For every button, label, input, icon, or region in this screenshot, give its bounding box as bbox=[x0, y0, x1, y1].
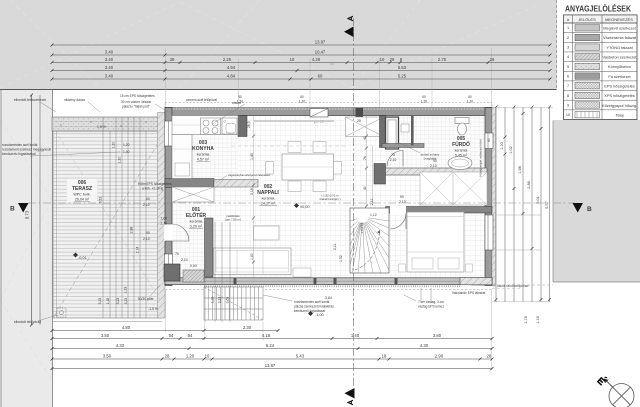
svg-text:3,29 m²: 3,29 m² bbox=[190, 225, 203, 229]
svg-text:3.80: 3.80 bbox=[433, 333, 442, 338]
kitchen bottom wall dark part bbox=[165, 179, 214, 188]
A marker top bbox=[344, 27, 354, 38]
svg-text:Vakolandó EPS lábazat: Vakolandó EPS lábazat bbox=[452, 291, 485, 295]
svg-text:XPS hőszigetelés: XPS hőszigetelés bbox=[604, 93, 635, 98]
svg-text:1.76: 1.76 bbox=[524, 316, 528, 323]
svg-text:1.98: 1.98 bbox=[518, 166, 522, 173]
svg-text:1,52: 1,52 bbox=[339, 255, 343, 262]
closet crossed box below top wall bbox=[346, 117, 384, 137]
left wall sidelight window bbox=[164, 254, 172, 268]
B marker left bbox=[18, 203, 29, 213]
svg-text:60: 60 bbox=[146, 197, 150, 201]
bottom wall right solid piece bbox=[460, 278, 492, 285]
svg-text:60: 60 bbox=[318, 74, 323, 79]
svg-text:×: × bbox=[90, 120, 92, 124]
insulation dashed outline above top wall bbox=[165, 103, 492, 108]
svg-text:Hőszükséglet nyílászáró bővít: Hőszükséglet nyílászáró bővít bbox=[479, 139, 483, 176]
svg-text:2,10: 2,10 bbox=[143, 203, 150, 207]
svg-text:×: × bbox=[60, 123, 62, 127]
svg-text:1.23: 1.23 bbox=[124, 287, 128, 294]
A marker bottom bbox=[345, 388, 355, 399]
corridor wardrobe crossed boxes bbox=[420, 172, 487, 205]
svg-text:Meglévő szerkezet: Meglévő szerkezet bbox=[603, 26, 636, 31]
svg-text:29: 29 bbox=[390, 57, 395, 62]
svg-text:1,20: 1,20 bbox=[123, 143, 130, 147]
right wall bedroom window bbox=[485, 215, 493, 250]
svg-text:1,80: 1,80 bbox=[250, 253, 254, 260]
svg-text:rozsdamentes acél korlát: rozsdamentes acél korlát bbox=[2, 143, 38, 147]
kitchen label bbox=[192, 140, 214, 162]
svg-text:90: 90 bbox=[238, 95, 242, 99]
svg-text:elbontott tetőszerkezet: elbontott tetőszerkezet bbox=[14, 98, 46, 102]
svg-text:(gm 7,00 m): (gm 7,00 m) bbox=[225, 218, 241, 222]
svg-text:NAPPALI: NAPPALI bbox=[257, 190, 279, 196]
svg-text:4.80: 4.80 bbox=[122, 325, 131, 330]
svg-text:8.73: 8.73 bbox=[25, 210, 30, 219]
svg-text:3.40: 3.40 bbox=[105, 74, 114, 79]
svg-text:-0,01: -0,01 bbox=[78, 256, 87, 260]
svg-text:40: 40 bbox=[363, 186, 367, 190]
svg-text:60: 60 bbox=[487, 138, 491, 142]
svg-text:KONYHA: KONYHA bbox=[192, 146, 214, 152]
coffee table bbox=[254, 226, 280, 240]
svg-text:2,10: 2,10 bbox=[399, 200, 406, 204]
svg-text:-1,00: -1,00 bbox=[315, 313, 324, 317]
svg-text:3.50: 3.50 bbox=[101, 333, 110, 338]
svg-text:13.87: 13.87 bbox=[315, 40, 326, 45]
top wall bbox=[165, 108, 492, 116]
svg-text:2.30: 2.30 bbox=[243, 325, 252, 330]
svg-text:2,11: 2,11 bbox=[333, 244, 337, 250]
demolished roof white dashed diagonals bbox=[0, 0, 540, 380]
svg-text:Vasbeton szerkezet: Vasbeton szerkezet bbox=[603, 55, 638, 60]
bath door pier bbox=[374, 164, 386, 185]
svg-text:a köb. +2,10-ig: a köb. +2,10-ig bbox=[142, 187, 163, 191]
svg-text:90: 90 bbox=[146, 231, 150, 235]
interior floor bbox=[165, 108, 492, 285]
svg-text:1,20: 1,20 bbox=[299, 100, 305, 104]
dim line 13.87 bbox=[52, 44, 550, 46]
washing machine bbox=[401, 124, 409, 132]
svg-text:18: 18 bbox=[382, 354, 387, 359]
svg-text:38: 38 bbox=[170, 57, 175, 62]
svg-text:±0,00: ±0,00 bbox=[300, 205, 309, 209]
svg-text:30 cm vázker. falazat: 30 cm vázker. falazat bbox=[121, 100, 151, 104]
site boundary lines bbox=[0, 89, 557, 91]
svg-text:3: 3 bbox=[567, 46, 569, 50]
svg-text:26,04 m²: 26,04 m² bbox=[75, 198, 90, 202]
bedroom door opening bbox=[390, 206, 406, 214]
svg-text:28: 28 bbox=[165, 354, 170, 359]
svg-text:70: 70 bbox=[175, 252, 179, 256]
svg-text:1,18: 1,18 bbox=[106, 298, 110, 305]
svg-text:1,18: 1,18 bbox=[211, 297, 215, 304]
svg-text:24,37 m²: 24,37 m² bbox=[261, 202, 276, 206]
svg-text:3.52: 3.52 bbox=[99, 197, 103, 204]
bath door leaf+arc bbox=[387, 151, 403, 167]
sink bbox=[222, 118, 237, 134]
bed bbox=[407, 212, 464, 272]
svg-text:5.24: 5.24 bbox=[266, 343, 275, 348]
svg-text:50/30 pillér: 50/30 pillér bbox=[138, 297, 155, 301]
row numbers bbox=[566, 26, 570, 117]
svg-text:75: 75 bbox=[391, 153, 395, 157]
terrace label bbox=[67, 179, 97, 203]
svg-text:cement acél tetőpúval: cement acél tetőpúval bbox=[186, 98, 217, 102]
svg-text:vakolt szinti tetőpúvad: vakolt szinti tetőpúvad bbox=[497, 284, 529, 288]
bath partition wall bbox=[411, 116, 414, 146]
svg-text:1: 1 bbox=[567, 26, 569, 30]
svg-text:Fa szerkezet: Fa szerkezet bbox=[608, 74, 631, 79]
svg-text:5.57: 5.57 bbox=[545, 201, 549, 208]
dim line row5 bbox=[52, 78, 550, 80]
svg-text:pálazzo "tálján pult": pálazzo "tálján pult" bbox=[122, 105, 150, 109]
small dims inside left area bbox=[97, 125, 197, 311]
svg-text:vágásirányban elhelyezett fals: vágásirányban elhelyezett falszakasz bbox=[228, 173, 270, 177]
terrace deck bbox=[53, 131, 162, 318]
svg-text:2.70: 2.70 bbox=[438, 57, 447, 62]
bottom wall window band bbox=[165, 278, 492, 285]
svg-text:25: 25 bbox=[357, 119, 361, 123]
shower half wall bbox=[382, 144, 424, 148]
svg-text:B: B bbox=[587, 206, 592, 213]
svg-text:29: 29 bbox=[490, 57, 495, 62]
svg-text:nikkelny dácsa: nikkelny dácsa bbox=[64, 98, 85, 102]
svg-text:MEGNEVEZÉS: MEGNEVEZÉS bbox=[605, 17, 633, 22]
dimension extension lines bbox=[166, 48, 492, 369]
svg-text:4.18: 4.18 bbox=[262, 333, 271, 338]
svg-text:Kőzetgyapot hőszig.: Kőzetgyapot hőszig. bbox=[602, 103, 637, 108]
svg-text:3.40: 3.40 bbox=[105, 65, 114, 70]
svg-text:1.16: 1.16 bbox=[536, 316, 540, 323]
right wall bbox=[485, 108, 492, 286]
existing-site gray: top band bbox=[0, 0, 557, 90]
left wall bbox=[165, 108, 172, 286]
svg-text:kerámia: kerámia bbox=[455, 149, 468, 153]
svg-text:1.20: 1.20 bbox=[112, 142, 116, 149]
svg-text:13.87: 13.87 bbox=[265, 363, 276, 368]
svg-text:kerámia: kerámia bbox=[197, 153, 210, 157]
svg-text:4.28: 4.28 bbox=[312, 57, 321, 62]
svg-text:2,11: 2,11 bbox=[370, 199, 374, 205]
terrace interior dim chains bbox=[103, 117, 146, 318]
svg-text:B: B bbox=[10, 206, 15, 213]
svg-text:2,10: 2,10 bbox=[143, 237, 150, 241]
svg-text:3,23: 3,23 bbox=[98, 298, 102, 305]
svg-text:2: 2 bbox=[567, 36, 569, 40]
nightstands bbox=[399, 264, 406, 272]
svg-text:1,43: 1,43 bbox=[250, 153, 254, 160]
svg-text:8: 8 bbox=[567, 94, 569, 98]
right side horizontal connectors bbox=[492, 108, 553, 302]
svg-text:rozsdament szerkesz megagyasol: rozsdament szerkesz megagyasolt bbox=[2, 148, 51, 152]
svg-text:4.30: 4.30 bbox=[420, 343, 429, 348]
sofa bbox=[214, 248, 292, 275]
chairs bbox=[266, 142, 342, 192]
counter top band bbox=[172, 116, 238, 135]
svg-text:6: 6 bbox=[567, 75, 569, 79]
svg-text:90: 90 bbox=[433, 159, 437, 163]
svg-text:5.01: 5.01 bbox=[536, 196, 540, 203]
kitchen/living wall stub bbox=[238, 116, 247, 137]
svg-text:4.33: 4.33 bbox=[116, 343, 125, 348]
svg-text:15 cm EPS hőszigetelés: 15 cm EPS hőszigetelés bbox=[120, 94, 155, 98]
svg-text:60: 60 bbox=[468, 95, 472, 99]
svg-text:60: 60 bbox=[422, 95, 426, 99]
existing-site gray: right block bbox=[553, 120, 640, 282]
svg-text:5.53: 5.53 bbox=[398, 65, 407, 70]
svg-text:rozsdamentes acél korlát: rozsdamentes acél korlát bbox=[294, 300, 330, 304]
svg-text:5: 5 bbox=[567, 65, 569, 69]
svg-text:2.25: 2.25 bbox=[223, 57, 232, 62]
bathroom left wall bbox=[380, 116, 386, 148]
counter left column bbox=[172, 135, 192, 179]
svg-text:-1,5 %: -1,5 % bbox=[148, 307, 158, 311]
terrace top insulated edge band bbox=[52, 117, 165, 131]
stove 4 circles bbox=[201, 118, 221, 135]
dims near kitchen/nappali top bbox=[247, 119, 437, 262]
bathroom bottom wall bbox=[386, 168, 488, 175]
svg-text:FÜRDŐ: FÜRDŐ bbox=[452, 141, 470, 148]
svg-text:1.20: 1.20 bbox=[118, 157, 122, 164]
elter wardrobe crossed box bbox=[172, 187, 214, 202]
svg-text:2,10: 2,10 bbox=[181, 258, 188, 262]
interior chain lines bbox=[254, 116, 373, 277]
bench against wall bbox=[293, 268, 311, 277]
svg-text:3,84: 3,84 bbox=[325, 296, 332, 300]
svg-text:WPC burk.: WPC burk. bbox=[73, 193, 90, 197]
svg-text:ANYAGJELÖLÉSEK: ANYAGJELÖLÉSEK bbox=[565, 5, 631, 14]
svg-text:10: 10 bbox=[566, 113, 570, 117]
svg-text:kerámia: kerámia bbox=[262, 197, 275, 201]
svg-text:4: 4 bbox=[567, 55, 569, 59]
svg-text:4,57 m²: 4,57 m² bbox=[197, 158, 210, 162]
svg-text:9: 9 bbox=[567, 103, 569, 107]
svg-text:Talaj: Talaj bbox=[615, 112, 623, 117]
eloter/nappali wall bbox=[205, 218, 214, 277]
svg-text:pálcás szerkezetű kialakítás: pálcás szerkezetű kialakítás bbox=[294, 305, 334, 309]
svg-text:×: × bbox=[145, 120, 147, 124]
svg-text:elburkolt lefolyócső: elburkolt lefolyócső bbox=[14, 320, 41, 324]
svg-text:10: 10 bbox=[290, 57, 295, 62]
right wall bath window bbox=[485, 133, 493, 149]
svg-text:vászol: vászol bbox=[232, 101, 241, 105]
dim line row4 bbox=[52, 70, 550, 72]
terrace bottom double edge bbox=[53, 321, 162, 323]
svg-text:0,00: 0,00 bbox=[190, 264, 197, 268]
dining table bbox=[282, 154, 334, 180]
svg-text:kendszerlu fogadásával: kendszerlu fogadásával bbox=[2, 152, 36, 156]
svg-text:3,23: 3,23 bbox=[116, 298, 120, 305]
kitchen bottom wall light part bbox=[214, 180, 258, 188]
svg-text:26,5: 26,5 bbox=[247, 121, 251, 128]
svg-text:3,23: 3,23 bbox=[218, 297, 222, 304]
svg-text:kerámia: kerámia bbox=[190, 220, 203, 224]
top wall vent box pm90 bbox=[310, 109, 328, 118]
short chains below bedroom bbox=[420, 288, 422, 303]
svg-text:28: 28 bbox=[487, 354, 492, 359]
shower bbox=[386, 117, 399, 149]
toilet bbox=[455, 118, 469, 124]
svg-text:YTONG falazat: YTONG falazat bbox=[606, 45, 633, 50]
right wall outer insulation bbox=[492, 108, 496, 286]
column lines bbox=[572, 15, 574, 120]
svg-text:1,5 %: 1,5 % bbox=[97, 125, 106, 129]
header row bbox=[564, 15, 638, 23]
svg-text:2,10: 2,10 bbox=[430, 164, 437, 168]
svg-text:5.25: 5.25 bbox=[398, 74, 407, 79]
window dims above top wall bbox=[237, 95, 473, 104]
corner pillar bbox=[164, 264, 180, 281]
svg-text:5.43: 5.43 bbox=[296, 354, 305, 359]
pelmet line above nappali window bbox=[254, 120, 334, 122]
dim line row2 bbox=[52, 54, 550, 56]
svg-text:Hőtm EPS hőszigetelés: Hőtm EPS hőszigetelés bbox=[138, 182, 172, 186]
svg-text:2,10: 2,10 bbox=[390, 158, 397, 162]
svg-text:EPS hőszigetelés: EPS hőszigetelés bbox=[604, 84, 635, 89]
svg-text:1,00: 1,00 bbox=[161, 217, 168, 221]
front door leaf+arc bbox=[172, 224, 189, 241]
svg-text:Könnyűbeton: Könnyűbeton bbox=[608, 64, 631, 69]
svg-text:3,18: 3,18 bbox=[250, 188, 254, 195]
svg-text:vastag EPS lemez: vastag EPS lemez bbox=[418, 305, 444, 309]
svg-text:1,12: 1,12 bbox=[370, 213, 377, 217]
swatches bbox=[575, 25, 600, 118]
left leader texts bbox=[2, 143, 51, 156]
svg-text:40: 40 bbox=[363, 136, 367, 140]
svg-text:10: 10 bbox=[380, 57, 385, 62]
ceiling beam dashed bbox=[231, 145, 347, 147]
svg-text:1.02: 1.02 bbox=[509, 146, 513, 153]
level mark nappali bbox=[294, 203, 299, 208]
svg-text:90: 90 bbox=[400, 195, 404, 199]
svg-text:76: 76 bbox=[363, 156, 367, 160]
svg-text:54: 54 bbox=[169, 333, 174, 338]
left wall outer insulation band bbox=[158, 113, 166, 319]
svg-text:Vázkerámia falazat: Vázkerámia falazat bbox=[603, 35, 637, 40]
svg-text:3.50: 3.50 bbox=[103, 354, 112, 359]
svg-text:2.88: 2.88 bbox=[130, 227, 134, 234]
svg-text:1.20: 1.20 bbox=[186, 354, 195, 359]
svg-text:84: 84 bbox=[188, 333, 193, 338]
svg-text:4.84: 4.84 bbox=[227, 74, 236, 79]
interior vertical dim chains below building bbox=[205, 222, 230, 322]
svg-text:×: × bbox=[120, 124, 122, 128]
bedroom top wall bbox=[386, 207, 493, 214]
svg-text:1,20: 1,20 bbox=[421, 100, 427, 104]
svg-text:2.14: 2.14 bbox=[136, 247, 140, 254]
table frame bbox=[564, 15, 638, 120]
tick marks top dims bbox=[51, 44, 552, 81]
svg-text:1.20: 1.20 bbox=[500, 142, 504, 149]
existing-site gray: left strip bbox=[0, 0, 52, 90]
svg-text:3,23: 3,23 bbox=[124, 298, 128, 305]
terrace level mark bbox=[78, 256, 87, 260]
drain bbox=[57, 308, 66, 317]
svg-text:1.40: 1.40 bbox=[351, 333, 360, 338]
svg-text:10: 10 bbox=[205, 354, 210, 359]
svg-text:JELÖLÉS: JELÖLÉS bbox=[578, 17, 596, 22]
svg-text:3,03: 3,03 bbox=[226, 297, 230, 304]
svg-text:1,40: 1,40 bbox=[123, 150, 130, 154]
svg-text:2.86: 2.86 bbox=[527, 181, 531, 188]
svg-text:17x17,6: 17x17,6 bbox=[360, 222, 364, 233]
tick row below band bbox=[204, 285, 460, 287]
row lines bbox=[564, 23, 638, 110]
svg-text:10,47: 10,47 bbox=[315, 50, 326, 55]
svg-text:1,20: 1,20 bbox=[467, 100, 473, 104]
sill dashes to right of building bbox=[492, 284, 553, 286]
svg-text:TERASZ: TERASZ bbox=[72, 186, 92, 192]
row names bbox=[602, 26, 637, 118]
svg-text:Gabefrövárgén ): Gabefrövárgén ) bbox=[319, 197, 340, 201]
svg-text:3.40: 3.40 bbox=[105, 50, 114, 55]
B marker right bbox=[573, 203, 584, 213]
svg-text:7: 7 bbox=[567, 84, 569, 88]
tiled floors bbox=[172, 115, 238, 179]
mullions bbox=[234, 278, 398, 285]
wash basin bbox=[448, 157, 472, 170]
svg-text:ELŐTÉR: ELŐTÉR bbox=[186, 211, 207, 219]
svg-text:2,10: 2,10 bbox=[161, 222, 168, 226]
dim line row3 bbox=[52, 62, 550, 64]
terrace diagonal dashed bbox=[55, 140, 160, 315]
svg-text:4.94: 4.94 bbox=[227, 65, 236, 70]
left wall door opening (front door) bbox=[164, 224, 173, 241]
pier in top wall bbox=[356, 108, 364, 118]
left wall kitchen window bbox=[164, 121, 172, 146]
svg-text:60: 60 bbox=[300, 95, 304, 99]
svg-text:2.90: 2.90 bbox=[435, 354, 444, 359]
svg-text:3.40: 3.40 bbox=[105, 57, 114, 62]
